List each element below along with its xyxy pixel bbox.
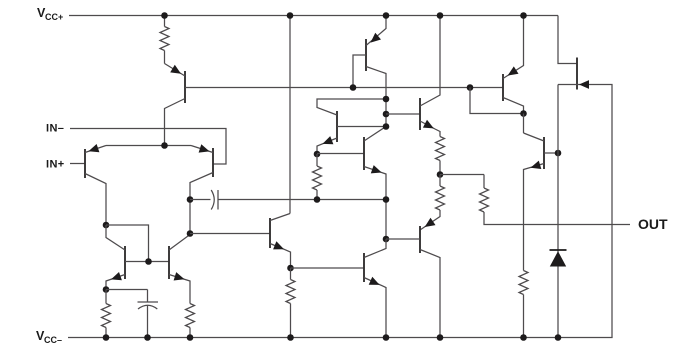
resistor R7 — [420, 175, 445, 231]
transistor Q5 — [106, 225, 125, 290]
node R6/R7 — [437, 171, 444, 178]
junction VCC+ x523 — [520, 12, 527, 19]
node R2 bottom — [314, 196, 321, 203]
svg-text:OUT: OUT — [638, 216, 668, 232]
node y126 — [383, 123, 390, 130]
wire Q12 base — [386, 238, 420, 240]
node bias mid — [467, 84, 474, 91]
wire Q11 base — [386, 113, 420, 115]
node mirror in — [103, 222, 110, 229]
wire to Q7 base — [190, 233, 270, 235]
resistor R4 — [186, 304, 195, 338]
wire to C2 — [106, 289, 148, 291]
JFET J1 — [558, 58, 612, 338]
node comp right — [383, 196, 390, 203]
wire bias L — [470, 88, 524, 114]
junction VCC+ x164 — [161, 12, 168, 19]
capacitor C2 — [138, 290, 159, 338]
bias line (Q3 base bus) — [185, 87, 503, 89]
node Q14 base — [555, 150, 562, 157]
wire VCC+ drop — [289, 16, 291, 214]
node Q5 emitter — [103, 286, 110, 293]
transistor Q13 — [503, 16, 524, 114]
svg-text:CC+: CC+ — [45, 12, 63, 22]
mirror base bus — [125, 261, 169, 263]
node Q10 collector — [383, 236, 390, 243]
transistor Q14 — [524, 133, 559, 271]
transistor Q4 — [353, 16, 386, 127]
node Q4 collector — [383, 96, 390, 103]
resistor R5 — [286, 268, 295, 338]
diode D1 — [550, 250, 567, 267]
transistor Q6 — [169, 235, 190, 304]
resistor R2 — [313, 154, 322, 200]
transistor Q2 — [190, 144, 213, 233]
svg-text:IN–: IN– — [46, 123, 64, 135]
junction VCC+ x386 — [383, 12, 390, 19]
wire IN+ stub — [70, 163, 85, 165]
node y114 — [383, 111, 390, 118]
wire VCC+ corner to J1 drain — [558, 16, 577, 64]
transistor Q3 — [165, 64, 186, 146]
junction VCC- x147 — [144, 334, 151, 341]
junction VCC- x106 — [103, 334, 110, 341]
wire Q13c to Q14c — [523, 114, 525, 134]
junction VCC- x523 — [520, 334, 527, 341]
wire Q9 base — [317, 153, 364, 155]
junction VCC+ x440 — [437, 12, 444, 19]
resistor R3 — [102, 290, 111, 338]
junction VCC- x440 — [437, 334, 444, 341]
node bias-Q4 — [350, 84, 357, 91]
node mirror bases — [145, 258, 152, 265]
transistor Q10 — [364, 239, 386, 338]
svg-text:CC–: CC– — [44, 335, 62, 345]
junction VCC+ x290 — [287, 12, 294, 19]
junction VCC- x190 — [187, 334, 194, 341]
VCC+ rail — [69, 15, 558, 17]
transistor Q1 — [85, 144, 106, 225]
wire IN- to Q2 base — [70, 129, 226, 165]
transistor Q12 — [420, 218, 440, 338]
emitter bus wire — [106, 145, 191, 147]
node first-stage out — [187, 230, 194, 237]
node Q7 emitter — [287, 265, 294, 272]
capacitor C1 — [190, 190, 386, 210]
VCC- rail — [68, 337, 613, 339]
transistor Q9 — [364, 127, 386, 240]
junction VCC- x558 — [555, 334, 562, 341]
svg-text:IN+: IN+ — [46, 159, 65, 171]
wire J1 source drop — [557, 85, 559, 338]
resistor R6 — [436, 137, 445, 175]
node Q2 collector — [187, 196, 194, 203]
node Q13 collector — [520, 110, 527, 117]
node tail junction — [161, 142, 168, 149]
resistor R8 — [480, 175, 631, 225]
transistor Q11 — [420, 16, 440, 137]
resistor R1 — [160, 16, 169, 64]
junction VCC- x386 — [383, 334, 390, 341]
wire mirror base tie — [106, 225, 149, 262]
junction VCC- x290 — [287, 334, 294, 341]
wire to Q10 base — [291, 267, 365, 269]
node Q8 emitter — [314, 151, 321, 158]
wire R6 to R8 — [440, 174, 484, 176]
transistor Q8 — [317, 99, 386, 154]
transistor Q7 — [270, 214, 291, 269]
resistor R9 — [519, 271, 528, 338]
